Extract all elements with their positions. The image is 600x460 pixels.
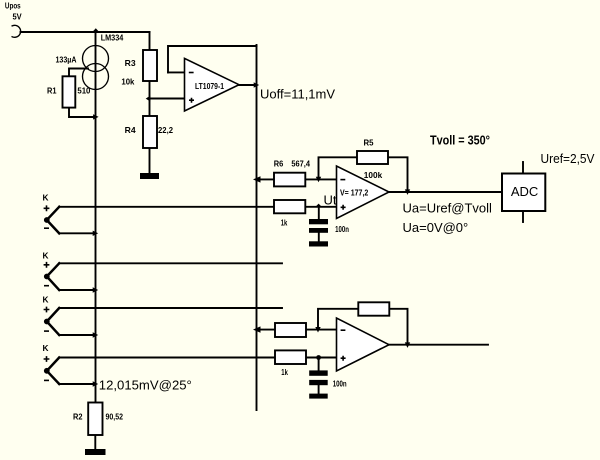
svg-text:K: K: [43, 294, 49, 304]
svg-text:K: K: [43, 343, 49, 353]
svg-text:Upos: Upos: [5, 1, 21, 11]
svg-text:90,52: 90,52: [106, 412, 124, 422]
svg-text:LT1079-1: LT1079-1: [195, 81, 224, 91]
svg-text:1k: 1k: [281, 218, 288, 228]
svg-text:V= 177,2: V= 177,2: [340, 187, 369, 197]
svg-text:Uoff=11,1mV: Uoff=11,1mV: [260, 86, 335, 101]
svg-text:Uref=2,5V: Uref=2,5V: [541, 151, 595, 166]
svg-text:Ut: Ut: [324, 193, 337, 208]
svg-text:100n: 100n: [335, 224, 349, 234]
svg-text:1k: 1k: [281, 367, 288, 377]
svg-text:Ua=Uref@Tvoll: Ua=Uref@Tvoll: [403, 200, 493, 215]
svg-text:100k: 100k: [364, 170, 383, 180]
svg-text:100n: 100n: [333, 378, 347, 388]
svg-text:5V: 5V: [13, 12, 23, 22]
svg-text:R5: R5: [364, 137, 374, 147]
svg-text:R1: R1: [47, 85, 57, 95]
svg-text:R2: R2: [73, 412, 83, 422]
svg-text:Tvoll = 350°: Tvoll = 350°: [430, 133, 490, 148]
svg-text:Ua=0V@0°: Ua=0V@0°: [403, 220, 469, 235]
svg-text:R4: R4: [125, 125, 136, 135]
svg-text:R3: R3: [125, 58, 136, 68]
svg-text:LM334: LM334: [101, 33, 124, 43]
svg-text:R6: R6: [274, 159, 284, 169]
svg-text:22,2: 22,2: [158, 125, 173, 135]
svg-text:ADC: ADC: [511, 184, 538, 199]
svg-text:10k: 10k: [121, 76, 134, 86]
svg-text:K: K: [43, 193, 49, 203]
svg-text:12,015mV@25°: 12,015mV@25°: [99, 377, 192, 392]
svg-text:133µA: 133µA: [56, 55, 77, 65]
svg-text:K: K: [43, 251, 49, 261]
svg-text:510: 510: [77, 85, 90, 95]
svg-text:567,4: 567,4: [291, 159, 310, 169]
